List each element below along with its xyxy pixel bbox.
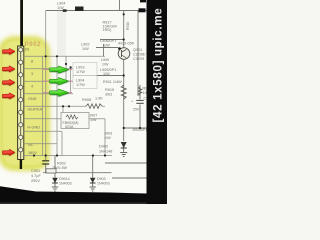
marker red arrow 4 — [3, 93, 16, 100]
diode D9014 label — [59, 177, 72, 186]
wire L905 row — [96, 75, 124, 77]
wire highlighted pink row a — [43, 69, 72, 71]
svg-text:2W/0-5W: 2W/0-5W — [52, 166, 68, 170]
wire right margin bus — [137, 11, 139, 97]
svg-text:25V: 25V — [133, 108, 140, 112]
wire jog at x70.6 — [70, 67, 72, 93]
connector P902 body — [18, 46, 24, 160]
wire R902 bottom lead — [54, 173, 56, 178]
wire internal pin strip — [20, 47, 22, 159]
wire top bus — [46, 10, 147, 12]
svg-text:[42 1x580] upic.me: [42 1x580] upic.me — [152, 8, 165, 123]
watermark strip right — [147, 0, 168, 204]
svg-text:4.7μF: 4.7μF — [31, 174, 41, 178]
resistor R914 label — [143, 87, 152, 96]
svg-text:C2208/: C2208/ — [133, 53, 146, 57]
svg-text:3: 3 — [31, 72, 33, 76]
node junction GND row x69 — [68, 105, 70, 107]
resistor R917 label — [103, 21, 118, 33]
svg-text:Q901: Q901 — [133, 48, 142, 52]
wire HEATER row — [24, 118, 61, 120]
wire C904 top lead — [139, 85, 141, 100]
svg-text:GND: GND — [28, 97, 37, 101]
wire NC row — [24, 143, 57, 145]
wire pin1 row — [24, 55, 105, 57]
diode D902 — [121, 142, 127, 152]
svg-text:1/W: 1/W — [104, 136, 111, 140]
wire GND row — [24, 105, 86, 107]
svg-text:R902: R902 — [57, 162, 66, 166]
node junction L905 row — [123, 74, 125, 76]
svg-text:L904: L904 — [76, 79, 84, 83]
wire H-GND drop to 180V row — [61, 131, 63, 155]
node junction emitter branch — [123, 127, 125, 129]
wire C901 bottom lead — [45, 165, 47, 173]
diode D903 — [90, 178, 96, 187]
wire highlighted pink row c — [43, 92, 72, 94]
pin 1 — [19, 48, 23, 52]
pin 2 — [19, 60, 23, 64]
svg-text:39Ω: 39Ω — [105, 93, 112, 97]
node junction 180V row x105 — [104, 154, 106, 156]
pin 9 — [19, 148, 23, 152]
node junction L906 row — [123, 38, 125, 40]
wire D903 anode lead — [92, 156, 94, 178]
diode D903 label — [97, 177, 110, 186]
wire pin2 row — [24, 68, 73, 70]
svg-text:J903: J903 — [104, 132, 112, 136]
wire stub below P902 — [20, 160, 22, 170]
wire GND row right of R908 — [102, 105, 105, 107]
wire highlighted pink row b — [43, 80, 72, 82]
marker red arrow 3 — [3, 79, 16, 86]
highlight blob over connector area — [0, 36, 50, 171]
wire thick HV lead into P902 from top — [20, 0, 23, 47]
ferrite bead FB902 — [61, 113, 89, 130]
svg-text:L904: L904 — [57, 2, 65, 6]
diode D9014 — [52, 178, 58, 187]
svg-text:1RD): 1RD) — [103, 28, 113, 32]
resistor R902 label — [52, 162, 68, 171]
wire lower right rail 1 — [105, 162, 147, 164]
wire C901 top lead — [45, 156, 47, 160]
ground below D903 — [90, 187, 96, 191]
wire jog at x66 — [65, 56, 67, 81]
svg-text:R920: R920 — [126, 22, 130, 30]
inductor L902 label — [81, 43, 89, 52]
pin 8 — [19, 135, 23, 139]
node tick on top bus — [63, 9, 67, 12]
svg-text:4: 4 — [31, 85, 33, 89]
node junction row1 x45.7 — [45, 55, 47, 57]
diode D902 label — [99, 145, 112, 154]
resistor R908 — [82, 97, 103, 109]
svg-text:250V: 250V — [31, 179, 40, 183]
node junction collector top — [123, 13, 125, 15]
svg-text:180V: 180V — [28, 151, 37, 155]
node junction 180V row x45.7 — [45, 154, 47, 156]
photo edge bottom black — [0, 186, 167, 204]
svg-text:1/W: 1/W — [103, 72, 110, 76]
wire bottom rail — [43, 172, 112, 174]
svg-text:1/W: 1/W — [102, 63, 109, 67]
svg-text:D903: D903 — [97, 177, 106, 181]
svg-text:4/G2-05#: 4/G2-05# — [118, 42, 135, 46]
svg-text:R915: R915 — [105, 88, 114, 92]
ground below D9014 — [52, 187, 58, 191]
label J907 — [90, 114, 98, 123]
svg-text:NC: NC — [28, 143, 34, 147]
wire heater net drop at x105 — [104, 119, 106, 156]
svg-text:1N: 1N — [25, 48, 30, 52]
wire R902 top lead — [54, 156, 56, 170]
node tick top right b — [139, 8, 146, 12]
label Q901 C2208/C3209 — [118, 42, 146, 62]
svg-text:1/7W: 1/7W — [76, 83, 85, 87]
svg-text:D9014: D9014 — [59, 177, 70, 181]
capacitor C901 label — [31, 169, 41, 183]
wire 180V row — [24, 155, 112, 157]
marker green arrow 3 — [50, 89, 70, 97]
wire HEATER row right of FB902 — [89, 118, 105, 120]
wire pin3 row — [24, 80, 73, 82]
svg-text:C3209: C3209 — [133, 57, 144, 61]
node junction GND row x63 — [62, 105, 64, 107]
pin 7 — [19, 123, 23, 127]
svg-text:L902: L902 — [81, 43, 89, 47]
node junction x57 row1 — [56, 55, 58, 57]
wire GND row drop into FB902 — [62, 106, 64, 112]
wire Q901 emitter chain — [123, 60, 125, 142]
ground below D902 — [120, 153, 127, 157]
capacitor C901 — [42, 161, 49, 164]
svg-text:1N4003: 1N4003 — [59, 182, 72, 186]
pin 5 — [19, 98, 23, 102]
svg-text:L909: L909 — [101, 58, 109, 62]
inductor L901 on top bus — [75, 7, 84, 12]
svg-text:523A: 523A — [65, 125, 74, 129]
marker green arrow 2 — [50, 77, 70, 85]
svg-text:R908: R908 — [82, 98, 91, 102]
node tick top right a — [140, 0, 146, 2]
label L905/0P1 — [100, 68, 116, 76]
node junction x70.6 — [70, 66, 72, 68]
svg-text:1N4148: 1N4148 — [99, 150, 112, 154]
wire Q901 base — [96, 47, 118, 49]
wire pin4 row — [24, 93, 73, 95]
svg-text:J907: J907 — [90, 114, 98, 118]
node junction 180V row x93 — [92, 154, 94, 156]
wire emitter to C904 branch — [124, 127, 147, 129]
marker green arrow 1 — [50, 66, 70, 74]
node junction 180V row x57 — [56, 154, 58, 156]
svg-text:H-GND: H-GND — [28, 126, 41, 130]
inductor L904 callout box — [73, 76, 97, 89]
pin 4 — [19, 85, 23, 89]
wire L906 row — [100, 39, 124, 41]
svg-text:1/W: 1/W — [57, 6, 64, 10]
svg-text:1.9K: 1.9K — [95, 97, 103, 101]
marker red arrow 1 — [3, 48, 16, 55]
node junction x66 — [65, 63, 67, 65]
node junction 180V row x34 — [33, 154, 35, 156]
svg-text:8: 8 — [31, 60, 33, 64]
transistor Q901 — [118, 47, 130, 59]
wire H-GND row — [24, 130, 62, 132]
inductor L909 label — [101, 58, 109, 67]
svg-text:1/7W: 1/7W — [76, 70, 85, 74]
wire from top edge at x119.5 — [119, 0, 121, 11]
label L906/0P1 — [100, 39, 116, 48]
svg-text:1N4003: 1N4003 — [97, 182, 110, 186]
wire C904 bottom lead — [139, 105, 141, 129]
wire label column divider — [103, 44, 105, 56]
resistor R902 — [46, 169, 56, 173]
pin 3 — [19, 73, 23, 77]
svg-text:HEATER: HEATER — [28, 108, 43, 112]
node junction C904 branch — [139, 127, 141, 129]
inductor L903 callout box — [73, 63, 97, 76]
svg-text:R911 1/4W: R911 1/4W — [103, 80, 122, 84]
marker red arrow 5 — [3, 149, 16, 156]
wire long vertical from top bus — [45, 11, 47, 156]
resistor R915 — [105, 85, 126, 99]
resistor R914 — [138, 87, 142, 96]
svg-text:1/W: 1/W — [90, 118, 97, 122]
svg-text:1/W: 1/W — [103, 44, 110, 48]
wire vertical label-cell divider — [42, 56, 44, 156]
wire vertical bus at x57 — [56, 56, 58, 155]
svg-text:C901: C901 — [31, 169, 40, 173]
svg-text:1/W: 1/W — [82, 47, 89, 51]
svg-text:L903: L903 — [76, 66, 84, 70]
pin 6 — [19, 110, 23, 114]
wire Q901 collector — [123, 11, 125, 48]
wire lower right rail 2 — [112, 177, 147, 179]
marker red arrow 2 — [3, 66, 16, 73]
capacitor C904 — [131, 97, 152, 112]
label J903 — [104, 132, 112, 141]
svg-text:D902: D902 — [99, 145, 108, 149]
svg-text:L906/0P1: L906/0P1 — [100, 39, 116, 43]
